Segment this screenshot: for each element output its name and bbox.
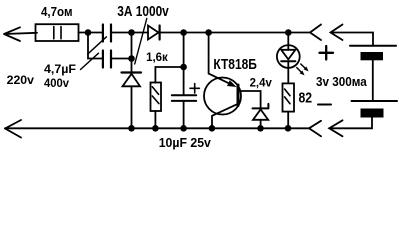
svg-text:КТ818Б: КТ818Б <box>213 56 257 73</box>
svg-text:4,7µF: 4,7µF <box>44 62 76 76</box>
svg-text:2,4v: 2,4v <box>250 75 272 89</box>
wire node D vertical (to 10µF cap) <box>183 33 185 95</box>
node G (LED top) <box>285 29 292 36</box>
diode VD1 3А 1000v (horizontal) <box>148 26 160 40</box>
wire between cells <box>372 60 374 101</box>
node I <box>152 125 159 132</box>
LED light arrow 1 <box>301 64 309 71</box>
battery minus label <box>318 104 331 106</box>
svg-text:4,7ом: 4,7ом <box>41 5 73 19</box>
svg-text:10µF 25v: 10µF 25v <box>159 135 212 150</box>
node B <box>128 29 135 36</box>
capacitor C1a (4,7µF 400v, upper) <box>103 25 111 42</box>
zener VD3 2,4v <box>253 104 269 128</box>
node D <box>180 29 187 36</box>
output socket bottom <box>309 121 321 137</box>
node F (emitter top) <box>205 29 212 36</box>
resistor 82 <box>283 83 295 128</box>
svg-text:3v 300ма: 3v 300ма <box>316 74 367 89</box>
battery GB1 bottom cell plate - <box>361 109 384 118</box>
battery GB1 top cell plate + <box>350 45 396 47</box>
battery plus label <box>320 46 334 60</box>
battery plug bottom <box>329 120 342 136</box>
diode VD2 (vertical shunt diode) <box>122 73 142 129</box>
wire node B down through node C to diode VD2 <box>131 33 133 73</box>
node K (collector bottom) <box>209 125 216 132</box>
svg-text:400v: 400v <box>44 76 69 90</box>
wire node E left to resistor 1,6к <box>155 67 183 83</box>
capacitor C2 10µF 25v (electrolytic) <box>172 95 196 128</box>
wire battery bottom to plug <box>329 118 372 129</box>
node J <box>180 125 187 132</box>
node L (zener bottom) <box>257 125 264 132</box>
transistor Q1 КТ818Б <box>204 33 261 129</box>
capacitor C1b (4,7µF 400v, lower) <box>103 51 111 68</box>
input arrow top (220v lead) <box>4 27 37 41</box>
svg-text:3А 1000v: 3А 1000v <box>117 3 169 20</box>
LED light arrow 2 <box>297 68 305 76</box>
input arrow bottom (220v lead) <box>5 120 21 138</box>
resistor 1,6к <box>151 83 162 129</box>
node C <box>128 55 135 62</box>
battery GB1 top cell plate - <box>361 52 384 60</box>
wire C1b to node C <box>112 58 132 60</box>
battery plug top <box>331 25 374 45</box>
node H <box>128 125 135 132</box>
pointer line from 3А 1000v label to node C <box>135 19 147 65</box>
wire C1a to node B and diode VD1 <box>112 32 148 34</box>
battery GB1 bottom cell plate + <box>352 100 398 102</box>
fuse-resistor 4,7ом <box>36 24 79 41</box>
svg-text:1,6к: 1,6к <box>146 50 169 64</box>
LED HL1 <box>277 33 300 84</box>
output socket top <box>310 25 321 41</box>
wire lower branch node A down and right <box>88 33 102 59</box>
bottom rail wire <box>5 127 309 129</box>
svg-text:82: 82 <box>299 90 313 107</box>
top rail wire to output socket <box>161 32 311 34</box>
svg-text:220v: 220v <box>7 75 35 87</box>
wire fuse to node A <box>79 32 102 34</box>
node E <box>180 64 187 71</box>
pointer line from C1b to C1a <box>88 37 107 54</box>
node A <box>85 29 92 36</box>
node M (82 bottom) <box>285 125 292 132</box>
plus sign of C2 <box>190 84 199 93</box>
pointer line from 4,7µF label to C1b <box>81 53 99 69</box>
